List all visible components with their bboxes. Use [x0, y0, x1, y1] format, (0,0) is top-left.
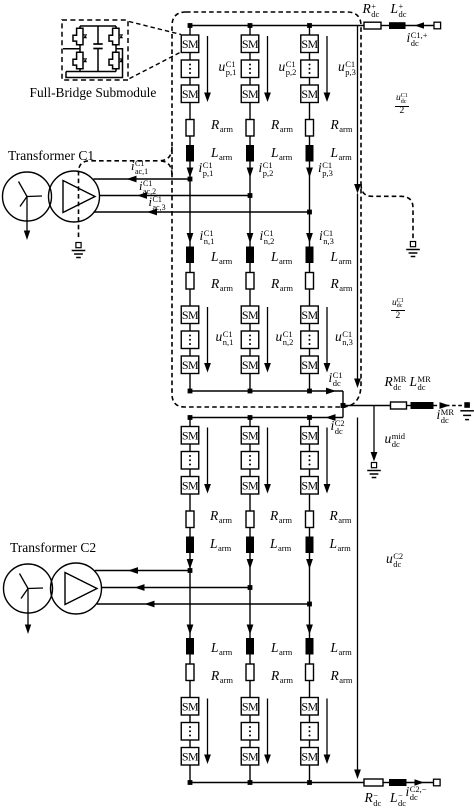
- svg-text:SM: SM: [242, 358, 259, 372]
- svg-text:SM: SM: [301, 749, 318, 763]
- svg-text:SM: SM: [242, 308, 259, 322]
- svg-text:SM: SM: [301, 428, 318, 442]
- svg-text:SM: SM: [242, 87, 259, 101]
- svg-text:SM: SM: [242, 699, 259, 713]
- svg-text:SM: SM: [242, 37, 259, 51]
- svg-text:SM: SM: [301, 699, 318, 713]
- svg-text:SM: SM: [182, 428, 199, 442]
- svg-text:SM: SM: [301, 358, 318, 372]
- svg-text:SM: SM: [182, 87, 199, 101]
- svg-text:SM: SM: [182, 478, 199, 492]
- svg-text:SM: SM: [182, 358, 199, 372]
- svg-text:SM: SM: [242, 749, 259, 763]
- svg-text:SM: SM: [301, 478, 318, 492]
- svg-text:SM: SM: [182, 37, 199, 51]
- svg-text:SM: SM: [182, 699, 199, 713]
- svg-text:SM: SM: [301, 308, 318, 322]
- svg-text:SM: SM: [182, 749, 199, 763]
- svg-text:SM: SM: [301, 37, 318, 51]
- svg-text:SM: SM: [242, 478, 259, 492]
- svg-text:SM: SM: [242, 428, 259, 442]
- svg-text:SM: SM: [301, 87, 318, 101]
- svg-text:SM: SM: [182, 308, 199, 322]
